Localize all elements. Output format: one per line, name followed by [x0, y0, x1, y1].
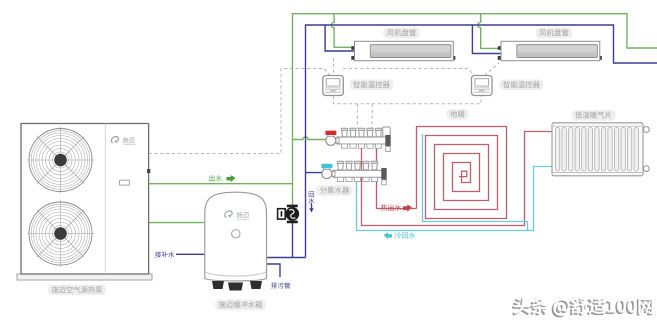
circulation pump [278, 205, 300, 224]
thermostat 2 label [500, 79, 544, 90]
paiwuguan text [271, 282, 290, 288]
thermostat 1 [323, 76, 344, 96]
rechushui text [381, 204, 412, 211]
supply manifold upper bar [325, 127, 390, 152]
fan coil unit 1 label [383, 28, 419, 39]
heat pump fan 2 [27, 200, 94, 267]
green supply pipes [149, 14, 657, 223]
radiator [552, 123, 649, 176]
heat pump label [48, 285, 106, 296]
chushui flow text [209, 175, 235, 182]
cyan return pipes [357, 134, 553, 231]
lenghuishui text [384, 232, 416, 239]
watermark [512, 297, 654, 317]
radiator label [572, 110, 616, 121]
huishui text [308, 191, 314, 212]
thermostat 2 [472, 76, 493, 96]
thermostat 1 label [350, 79, 394, 90]
fan coil unit 1 [351, 41, 455, 60]
fan coil unit 2 [498, 41, 602, 60]
heat pump fan 1 [27, 127, 94, 194]
dashed control wiring [149, 58, 500, 154]
manifold label [316, 185, 352, 196]
buffer tank [205, 192, 267, 290]
buffer tank label [215, 299, 266, 310]
return manifold lower bar [321, 161, 386, 185]
fan coil unit 2 label [536, 28, 572, 39]
red heating pipes and floor spiral [362, 127, 553, 226]
heat pump unit frame [17, 124, 152, 281]
navy return pipes [176, 25, 657, 277]
jiebushui text [155, 251, 174, 257]
floor heating label [447, 109, 469, 120]
